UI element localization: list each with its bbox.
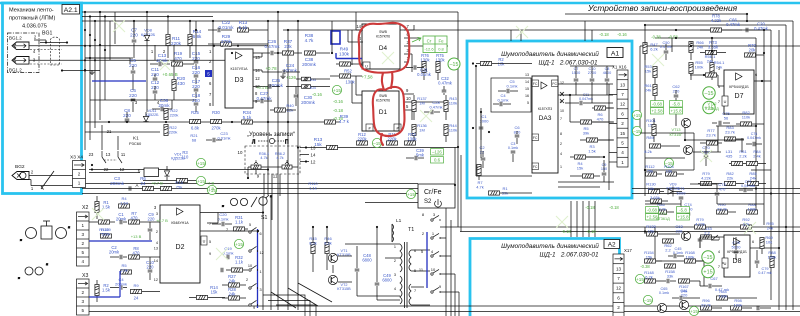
svg-text:220: 220 [192, 84, 200, 89]
right link vertical x640 [639, 46, 641, 133]
svg-text:BG2: BG2 [15, 164, 25, 170]
svg-text:ШД-1 2.067.030-01: ШД-1 2.067.030-01 [538, 59, 598, 66]
Cr Fe green table [423, 36, 447, 53]
svg-text:10k: 10k [498, 62, 506, 67]
svg-text:16: 16 [525, 94, 529, 98]
svg-text:15k: 15k [577, 165, 583, 170]
mid wire row 6 right [632, 188, 800, 190]
svg-text:435: 435 [726, 153, 733, 158]
resistor R89 [650, 144, 661, 148]
svg-text:+15.8: +15.8 [677, 215, 689, 220]
svg-text:5: 5 [81, 250, 84, 255]
svg-text:D2: D2 [176, 244, 185, 251]
resistor R1 [95, 202, 99, 213]
green circled -15 bottom [643, 295, 652, 304]
svg-text:10k: 10k [766, 239, 772, 244]
head shield can [51, 37, 60, 65]
top bus wire 5 [283, 29, 764, 31]
svg-text:X3: X3 [82, 273, 88, 279]
D4 feeder verticals [331, 21, 333, 53]
resistor R86 [656, 210, 667, 214]
D4 pin wires right [404, 29, 414, 31]
left cluster vertical 1 [84, 12, 86, 150]
resistor R6 a1 [595, 106, 606, 110]
X16 stubs [609, 94, 617, 96]
svg-text:+0.1 В: +0.1 В [256, 85, 268, 90]
svg-text:10k: 10k [666, 168, 672, 173]
resistor R90 [717, 210, 728, 214]
svg-text:+15: +15 [197, 161, 205, 166]
svg-text:–15: –15 [373, 141, 381, 146]
green box 0.6 [431, 157, 444, 163]
svg-text:A1: A1 [611, 51, 620, 58]
svg-text:SWB: SWB [379, 94, 387, 98]
center vertical 2 [277, 12, 279, 310]
green circled +15 relay2 [196, 158, 205, 167]
svg-text:+7 В: +7 В [206, 186, 215, 191]
top bus wire 2 [82, 16, 213, 18]
svg-text:2: 2 [246, 278, 248, 282]
right vertical x676 [675, 104, 677, 126]
left cluster vertical 5 [104, 17, 106, 101]
svg-text:13: 13 [311, 146, 316, 151]
svg-text:3.65k: 3.65k [708, 45, 719, 50]
svg-text:+15: +15 [407, 192, 415, 197]
svg-text:13: 13 [154, 247, 158, 251]
svg-text:12: 12 [311, 160, 316, 165]
svg-text:510k: 510k [102, 231, 111, 236]
svg-text:12: 12 [154, 278, 158, 282]
level pot icon [252, 138, 289, 145]
svg-text:7: 7 [718, 265, 720, 269]
resistor R5 a1 [581, 120, 592, 124]
svg-text:DA3: DA3 [539, 115, 552, 122]
ground symbol left [89, 70, 94, 75]
resistor R13c [327, 145, 338, 149]
resistor R22b [164, 125, 168, 136]
resistor R20 [172, 80, 176, 91]
svg-text:4.036.075: 4.036.075 [22, 24, 47, 30]
svg-text:-12.6: -12.6 [424, 46, 434, 51]
feeder vertical right of A2 [654, 227, 656, 260]
top bus wire 1 [82, 11, 458, 13]
T1 wires 2 [345, 243, 385, 245]
svg-text:VT12: VT12 [707, 102, 716, 106]
svg-text:4.7k: 4.7k [476, 184, 484, 189]
svg-text:220k: 220k [169, 129, 178, 134]
svg-text:+126: +126 [286, 75, 296, 80]
svg-text:U: U [203, 240, 206, 244]
resistor R5 [121, 270, 132, 274]
resistor R3 a1 [587, 138, 598, 142]
resistor R38 [305, 51, 316, 55]
bottom bend 2 [268, 301, 310, 316]
microphone symbol [20, 221, 70, 242]
svg-text:-0.16: -0.16 [333, 99, 344, 104]
green circled -15 d7 [703, 87, 715, 99]
svg-text:1.5k: 1.5k [588, 148, 596, 153]
svg-text:1М: 1М [419, 100, 425, 105]
green box pair 3 [646, 207, 659, 213]
svg-text:K1: K1 [133, 136, 139, 141]
bottom bend 3 [276, 305, 316, 316]
svg-text:7: 7 [226, 228, 228, 232]
bottom small caps [757, 306, 759, 311]
resistor R37 [283, 51, 294, 55]
wire above A2 1 [440, 226, 800, 228]
svg-text:0.47mk: 0.47mk [429, 104, 442, 109]
svg-text:23.7k: 23.7k [706, 132, 716, 137]
cluster vertical x196 top [195, 21, 197, 44]
relay contact dash [104, 159, 117, 161]
green box pair 2 [670, 101, 683, 107]
resistor R55 [689, 63, 693, 74]
svg-text:0.47mk: 0.47mk [438, 81, 453, 86]
svg-text:13: 13 [106, 152, 111, 157]
transistor VT12 [681, 118, 690, 127]
svg-text:13: 13 [525, 73, 529, 77]
right wire y133 [640, 132, 694, 134]
svg-text:R35: R35 [310, 78, 316, 82]
right bus vertical 4 [770, 30, 772, 300]
svg-text:К157УЛ1А: К157УЛ1А [230, 67, 248, 71]
green circled x17 [635, 274, 644, 283]
block A1 label [607, 48, 623, 58]
S2 riser wires [445, 208, 447, 316]
svg-text:3: 3 [81, 232, 84, 237]
cluster vertical x147 low [146, 58, 148, 112]
left cluster vertical 6 [109, 21, 111, 60]
a1 wire C11 out [592, 102, 613, 104]
green circled +15 s1 [234, 239, 243, 248]
svg-text:21: 21 [107, 129, 112, 134]
cluster vertical x172 [171, 100, 173, 109]
svg-text:протяжный (ЛПМ): протяжный (ЛПМ) [9, 15, 55, 22]
S2 box [418, 184, 455, 208]
svg-text:4: 4 [156, 241, 158, 245]
svg-text:24k: 24k [767, 225, 773, 230]
svg-text:ШД-1 2.067.030-01: ШД-1 2.067.030-01 [539, 251, 599, 258]
svg-text:0.01mk: 0.01mk [417, 72, 432, 77]
resistor R25b [190, 119, 201, 123]
relay contact wires [101, 125, 103, 150]
svg-text:0.1mk: 0.1mk [659, 291, 669, 295]
D7 out wire [754, 80, 771, 82]
svg-text:0.8: 0.8 [438, 46, 444, 51]
green circled +15 x3x4 [207, 185, 216, 194]
svg-text:24k: 24k [229, 292, 237, 297]
right wire y152 [693, 151, 721, 153]
svg-text:3: 3 [718, 67, 720, 71]
svg-text:4.7k: 4.7k [305, 38, 314, 43]
svg-text:КР544УД1Б: КР544УД1Б [729, 85, 749, 89]
svg-text:VT13: VT13 [671, 128, 680, 132]
left cluster vertical 2 [89, 17, 91, 141]
center vertical 6 [270, 196, 272, 310]
resistor R9 [131, 289, 142, 293]
svg-text:2: 2 [621, 121, 624, 126]
svg-text:0.047mk: 0.047mk [579, 97, 593, 101]
svg-text:130k: 130k [407, 137, 417, 142]
a1 bottom resistor [583, 174, 594, 178]
resistor R70 [745, 53, 756, 57]
right bus vertical 5 [763, 30, 765, 225]
svg-text:X2: X2 [82, 205, 88, 211]
resistor R148 [645, 279, 656, 283]
cluster vertical C7 [133, 21, 135, 33]
mid wire row 4 [82, 188, 418, 190]
A1 left feeder vertical 2 [460, 155, 462, 232]
svg-text:4: 4 [81, 259, 84, 264]
svg-text:110k: 110k [742, 114, 750, 119]
svg-text:200mk: 200mk [302, 62, 316, 67]
svg-text:D3: D3 [235, 77, 244, 84]
resistor R8 [129, 255, 140, 259]
blue wire D4 [336, 58, 362, 60]
svg-text:13: 13 [255, 55, 260, 60]
resistor R81 [732, 161, 743, 165]
green circled -15 d8 [702, 251, 714, 263]
resistor R92 [725, 181, 736, 185]
cluster vertical x213 [212, 21, 214, 44]
svg-text:56: 56 [724, 115, 729, 120]
a1 wires [570, 65, 614, 67]
svg-text:22: 22 [480, 149, 485, 154]
svg-text:100k: 100k [748, 206, 757, 211]
cluster vertical x174 [173, 45, 175, 70]
svg-text:24: 24 [141, 181, 146, 186]
node wire 1 [85, 57, 130, 59]
svg-text:1: 1 [621, 160, 624, 165]
svg-text:0.1mk: 0.1mk [507, 83, 518, 88]
svg-text:D7: D7 [735, 93, 744, 100]
level stub wires [300, 147, 309, 149]
svg-text:13: 13 [616, 266, 622, 271]
svg-text:5.1k: 5.1k [239, 25, 248, 30]
blue wire X2 [89, 240, 152, 242]
svg-text:1.1k: 1.1k [235, 220, 244, 225]
svg-text:220: 220 [676, 228, 683, 233]
capacitor C64b [667, 279, 669, 284]
wire corner right [779, 20, 793, 22]
svg-text:4: 4 [394, 287, 396, 291]
relay K1 coil [144, 168, 159, 177]
green circled -15 row [372, 138, 381, 147]
svg-text:Шумоподавитель динамический: Шумоподавитель динамический [501, 50, 599, 58]
top bus wire 7 [640, 45, 800, 47]
resistor R136 [412, 125, 416, 136]
svg-text:R52: R52 [344, 69, 352, 74]
svg-text:10k: 10k [648, 186, 654, 191]
svg-text:4.22k: 4.22k [711, 18, 722, 23]
top frame line [0, 2, 800, 5]
DA3 FC boxes [532, 80, 539, 87]
svg-text:Л: Л [252, 140, 255, 146]
resistor R160 [770, 257, 774, 268]
resistor R91 [747, 210, 758, 214]
svg-text:20mk: 20mk [158, 103, 170, 108]
svg-text:1.6k: 1.6k [120, 267, 128, 272]
svg-text:П: П [285, 140, 289, 146]
svg-text:“: “ [270, 196, 272, 202]
svg-text:„: „ [20, 236, 22, 242]
svg-text:100k: 100k [719, 293, 728, 298]
svg-text:К157ХП3: К157ХП3 [538, 107, 552, 111]
svg-text:2: 2 [81, 290, 84, 295]
resistor R2 [95, 285, 99, 296]
resistor R128 [99, 220, 110, 224]
svg-text:2.4k: 2.4k [753, 153, 761, 158]
svg-text:220k: 220k [357, 137, 367, 142]
svg-text:24k: 24k [229, 279, 237, 284]
svg-text:S1: S1 [261, 215, 267, 221]
svg-text:X1 X16: X1 X16 [612, 65, 627, 70]
resistor R83 [725, 137, 736, 141]
transistor VT2 [328, 275, 337, 284]
svg-text:0.047mk: 0.047mk [741, 184, 755, 188]
svg-text:270k: 270k [221, 39, 232, 44]
svg-text:8: 8 [560, 132, 562, 136]
pot wires [248, 166, 251, 168]
svg-text:+13 В: +13 В [131, 234, 142, 239]
svg-text:20mk: 20mk [116, 217, 127, 222]
a1 vertical c7 col [575, 90, 577, 95]
svg-text:23.7k: 23.7k [725, 129, 735, 134]
svg-text:12: 12 [620, 102, 626, 107]
resistor R167 [679, 279, 690, 283]
svg-text:24k: 24k [697, 44, 703, 49]
svg-text:-0.16: -0.16 [312, 92, 323, 97]
green circled +15 a1 [632, 110, 641, 119]
resistor R82 [741, 122, 752, 126]
bottom diagonal 2 [288, 288, 318, 306]
svg-text:10: 10 [238, 150, 243, 155]
svg-text:3: 3 [718, 237, 720, 241]
capacitor C21 [221, 268, 223, 273]
wire y14 [565, 13, 747, 15]
svg-text:T1: T1 [408, 227, 414, 233]
left cluster vertical 4 [99, 12, 101, 120]
resistor R3 body [177, 178, 188, 182]
a1 wire R5 out [592, 121, 613, 123]
a1 left dots [472, 127, 474, 129]
svg-text:20mk: 20mk [109, 250, 120, 255]
connector X16 [617, 70, 628, 167]
resistor R22a [164, 109, 168, 120]
svg-text:10: 10 [248, 264, 252, 268]
svg-text:“: “ [68, 227, 70, 233]
svg-text:7: 7 [621, 92, 624, 97]
svg-text:+0.7 В: +0.7 В [151, 181, 163, 186]
svg-text:22: 22 [104, 167, 109, 172]
svg-text:U: U [365, 64, 368, 69]
resistor R77 [707, 141, 718, 145]
head symbol 1 [12, 42, 29, 50]
svg-text:9: 9 [209, 252, 211, 256]
right wire y140 [685, 139, 744, 141]
green circled -15 a1 [632, 126, 641, 135]
green box -126 [431, 149, 444, 155]
svg-text:12: 12 [120, 167, 125, 172]
resistor R72 row [405, 141, 416, 145]
svg-text:33k: 33k [667, 273, 673, 278]
a1 wire R3 out [598, 139, 613, 141]
svg-text:100k: 100k [734, 302, 743, 307]
center vertical 3 [287, 30, 289, 310]
D2 U box [201, 236, 207, 245]
a1 wire R4 node [586, 156, 604, 158]
svg-text:-0.38: -0.38 [640, 264, 650, 269]
D7 U box [722, 96, 728, 106]
block A2.1 frame [3, 3, 82, 194]
svg-text:4.7k: 4.7k [276, 156, 283, 160]
svg-text:–15: –15 [644, 298, 652, 303]
inductor L1 [392, 224, 394, 242]
svg-text:0.47mk: 0.47mk [256, 96, 272, 101]
svg-text:4: 4 [621, 150, 624, 155]
X16 feed vertical [608, 84, 610, 190]
green box pair 1 [651, 101, 664, 107]
right vertical x672 [671, 38, 673, 52]
svg-text:3.65k: 3.65k [650, 195, 660, 200]
A1 top feeder 2 [520, 30, 522, 41]
svg-text:8.2k: 8.2k [644, 149, 652, 154]
svg-text:15k: 15k [211, 290, 219, 295]
svg-text:10: 10 [431, 267, 436, 272]
resistor R53r [653, 67, 657, 78]
resistor R29 [221, 42, 232, 46]
svg-text:Б: Б [138, 169, 141, 174]
svg-text:+7,58: +7,58 [361, 75, 373, 80]
transistor VT16 [657, 303, 666, 312]
resistor R11 row [387, 141, 398, 145]
right wire y184 [690, 183, 717, 185]
svg-text:+0.65 В: +0.65 В [162, 72, 177, 77]
svg-text:К157КП6: К157КП6 [376, 35, 390, 39]
svg-text:+0.78: +0.78 [265, 66, 277, 71]
cluster horizontal y58 [85, 57, 133, 59]
svg-text:2: 2 [560, 142, 562, 146]
svg-text:+7 В: +7 В [206, 181, 215, 186]
svg-text:6: 6 [621, 111, 624, 116]
svg-text:1.64: 1.64 [120, 200, 129, 205]
svg-text:A2.1: A2.1 [64, 7, 78, 14]
resistor R46 [325, 243, 329, 254]
svg-text:-5.8: -5.8 [672, 102, 680, 107]
svg-text:S2: S2 [424, 199, 432, 205]
svg-text:6800: 6800 [382, 278, 392, 283]
block A1 frame [467, 41, 632, 198]
resistor R85 [748, 181, 759, 185]
right wire y126 [716, 125, 756, 127]
L1 feed wire [391, 224, 393, 242]
svg-text:1: 1 [560, 165, 562, 169]
svg-text:6: 6 [260, 232, 262, 236]
switch IC D1 [362, 91, 399, 131]
resistor R44 [444, 125, 448, 136]
svg-text:0.47mk: 0.47mk [754, 26, 769, 31]
svg-text:6.8k: 6.8k [191, 126, 200, 131]
svg-text:0.1mk: 0.1mk [218, 216, 229, 221]
svg-text:FC: FC [533, 82, 538, 86]
svg-text:„: „ [222, 202, 224, 208]
switch S1 blue bar [257, 229, 259, 308]
S1 selector icons [222, 195, 272, 208]
resistor R137 [412, 101, 416, 112]
cluster bottom wire [85, 131, 160, 133]
svg-text:5: 5 [209, 240, 211, 244]
svg-text:1: 1 [394, 245, 396, 249]
